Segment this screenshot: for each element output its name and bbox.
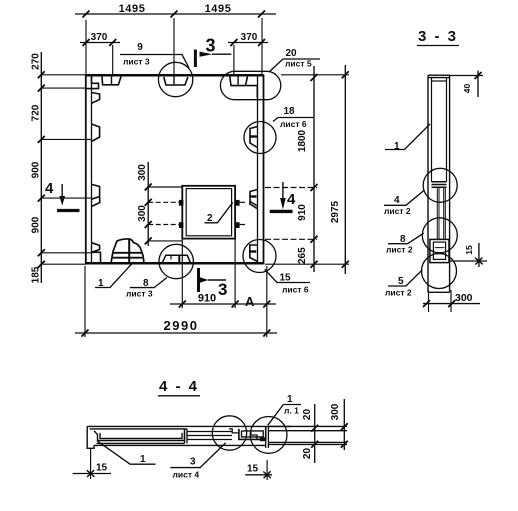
joint U channel <box>239 426 266 439</box>
dim 300 (3-3) <box>429 290 452 312</box>
left dimension line (270 720 900 900 185) <box>38 52 45 283</box>
detail circle 8 <box>159 244 193 278</box>
step detail at C1 <box>432 182 447 188</box>
svg-text:л. 1: л. 1 <box>284 406 299 416</box>
left corner rebate top <box>86 75 99 88</box>
right outer dimension line 2975 <box>342 65 349 274</box>
dim 370 left <box>80 39 120 46</box>
extension verticals to 2990 <box>85 266 267 337</box>
svg-text:лист 2: лист 2 <box>384 206 411 216</box>
svg-text:4: 4 <box>45 180 54 197</box>
svg-text:2975: 2975 <box>330 200 341 223</box>
extension top edge right <box>281 74 349 76</box>
svg-text:270: 270 <box>31 53 42 70</box>
svg-text:900: 900 <box>31 216 42 233</box>
svg-text:300: 300 <box>137 205 148 222</box>
dim 15 (3-3) <box>450 260 487 262</box>
slab left end cap <box>87 426 94 448</box>
box hatch dashes <box>435 248 445 254</box>
svg-text:3 - 3: 3 - 3 <box>418 28 458 45</box>
bottom key center (detail 8) <box>163 255 191 262</box>
svg-text:лист 6: лист 6 <box>282 285 309 295</box>
detail stadium 20 <box>220 71 280 99</box>
plan right inner edge <box>257 76 259 263</box>
tray right divider <box>185 429 188 444</box>
svg-text:370: 370 <box>91 32 108 43</box>
svg-text:лист 2: лист 2 <box>385 288 412 298</box>
svg-text:лист 2: лист 2 <box>386 245 413 255</box>
top right corner key <box>230 77 248 86</box>
right panel lines <box>268 426 347 444</box>
joint vertical pair <box>266 426 269 448</box>
left key 1 <box>92 93 100 104</box>
svg-text:9: 9 <box>137 42 143 53</box>
svg-text:1495: 1495 <box>205 3 232 15</box>
wall inner middle pair <box>437 187 445 239</box>
dim 370 right <box>228 39 268 46</box>
top right corner rebate <box>247 86 258 98</box>
svg-text:20: 20 <box>285 48 297 59</box>
bell feature bottom left <box>111 239 144 262</box>
slab bottom right of joint <box>232 444 266 446</box>
svg-text:1: 1 <box>287 394 293 405</box>
slab bottom edge <box>94 443 232 445</box>
svg-text:300: 300 <box>455 292 473 304</box>
svg-text:185: 185 <box>31 266 42 283</box>
svg-text:1800: 1800 <box>297 129 308 152</box>
extension line 370 right <box>233 45 235 76</box>
wall bottom edge <box>428 291 450 293</box>
dim 20/20 line (4-4) <box>314 404 316 463</box>
svg-text:лист 4: лист 4 <box>173 470 200 480</box>
plan left outer edge <box>85 75 87 265</box>
section mark 3 top <box>195 50 231 68</box>
joint inner step <box>251 431 257 440</box>
extension line right corner <box>261 18 263 75</box>
svg-text:15: 15 <box>247 464 259 475</box>
extension lines left <box>41 75 91 264</box>
joint step left <box>229 429 239 433</box>
svg-text:4 - 4: 4 - 4 <box>159 378 199 395</box>
detail circle 5 (3-3) <box>422 254 457 289</box>
svg-text:15: 15 <box>96 463 108 474</box>
extension line 370 left <box>112 45 114 76</box>
bottom dimension line 2990 <box>75 330 277 337</box>
svg-text:3: 3 <box>190 457 196 468</box>
extension from square to 910 dim <box>182 239 235 308</box>
svg-text:лист 3: лист 3 <box>123 57 150 67</box>
recess tray <box>94 431 185 441</box>
svg-text:1: 1 <box>140 454 146 465</box>
plan right outer edge <box>263 75 265 265</box>
center square opening inner <box>186 189 231 236</box>
left key 2 <box>92 124 100 142</box>
right key 2 <box>250 190 258 209</box>
svg-text:3: 3 <box>218 280 227 299</box>
extension lines right mid <box>265 188 317 240</box>
left bottom key stack <box>92 243 101 263</box>
box detail at C2 inner <box>433 242 445 259</box>
square extension lines <box>148 187 182 241</box>
svg-text:4: 4 <box>287 191 296 208</box>
svg-text:3: 3 <box>206 36 216 56</box>
dim 15 right (4-4) <box>266 460 268 480</box>
bottom dimension line 910 / A <box>170 301 276 308</box>
svg-text:720: 720 <box>31 104 42 121</box>
right inner dimension line (1800 910 265) <box>311 66 318 272</box>
box detail at C2 outer <box>430 239 449 262</box>
plan top edge <box>86 74 264 77</box>
svg-text:лист 3: лист 3 <box>126 289 153 299</box>
left key 3 <box>92 184 100 206</box>
svg-text:900: 900 <box>31 161 42 178</box>
detail circle 18 <box>244 122 276 154</box>
top key left (under 370) <box>102 77 121 85</box>
dim 15 left (4-4) <box>90 449 92 479</box>
extension line left corner <box>85 20 87 75</box>
slab top edge <box>87 426 291 429</box>
svg-text:1495: 1495 <box>119 3 146 15</box>
svg-text:20: 20 <box>302 409 313 421</box>
wall outer left <box>427 75 429 292</box>
svg-text:4: 4 <box>394 195 400 206</box>
joint filled mark <box>260 437 266 441</box>
svg-text:910: 910 <box>297 204 308 221</box>
svg-text:А: А <box>245 294 255 309</box>
svg-text:40: 40 <box>462 84 472 94</box>
right key 3 (detail 15) <box>250 245 258 262</box>
detail circle A (4-4) <box>212 416 246 450</box>
wall top cap <box>428 75 450 77</box>
top dimension line 1495+1495 <box>75 11 276 18</box>
svg-text:18: 18 <box>283 106 295 117</box>
extension bottom edge right <box>265 263 349 265</box>
detail circle 9 <box>158 62 192 96</box>
center square opening outer <box>182 186 235 239</box>
svg-text:лист 6: лист 6 <box>280 119 307 129</box>
svg-text:лист 5: лист 5 <box>285 59 312 69</box>
plan left inner edge <box>91 76 93 263</box>
detail circle 4 (3-3) <box>423 168 457 202</box>
svg-text:15: 15 <box>464 245 474 255</box>
inner top line <box>432 80 447 82</box>
wall outer right <box>449 75 451 292</box>
square dim line 300/300 <box>145 162 152 246</box>
svg-text:2990: 2990 <box>164 318 199 333</box>
section mark 4 left <box>57 184 80 211</box>
section mark 4 right <box>270 182 293 211</box>
plan bottom edge <box>86 262 264 265</box>
detail circle 15 <box>243 240 276 273</box>
section mark 3 bottom <box>199 268 227 292</box>
top key center (detail 9) <box>164 77 188 85</box>
detail circle B (4-4) <box>250 417 287 454</box>
svg-text:910: 910 <box>198 293 216 305</box>
svg-text:20: 20 <box>302 448 313 460</box>
svg-text:300: 300 <box>137 164 148 181</box>
svg-text:300: 300 <box>330 403 341 420</box>
svg-text:1: 1 <box>394 141 400 152</box>
svg-text:370: 370 <box>241 32 258 43</box>
anchor marks on square <box>179 200 184 206</box>
mid laminate lines <box>187 432 232 440</box>
right key 1 (detail 18) <box>250 127 258 148</box>
svg-text:265: 265 <box>297 247 308 264</box>
detail circle 8 (3-3) <box>422 218 457 253</box>
extension line mid <box>173 18 175 76</box>
dim 300 line (4-4) <box>343 399 345 450</box>
dim 40 top right (3-3) <box>450 75 483 77</box>
wall inner upper faces <box>432 78 447 182</box>
